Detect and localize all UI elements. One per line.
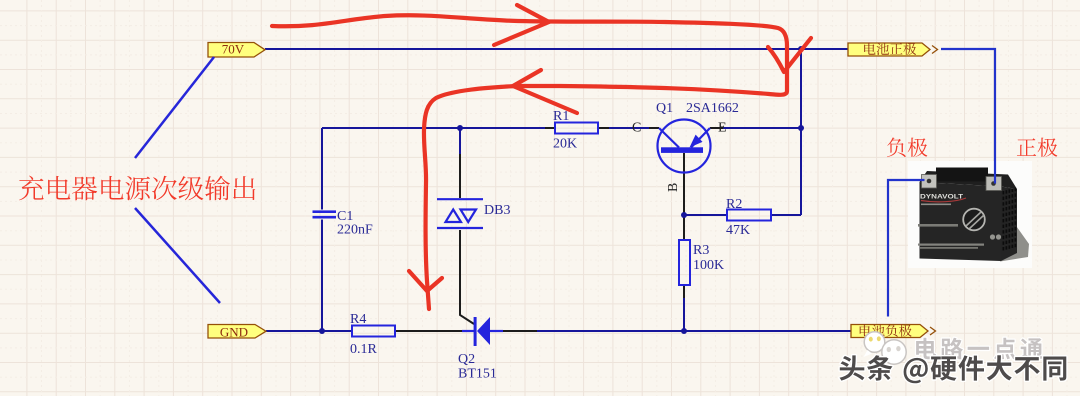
battery bottom text [918, 244, 984, 246]
svg-text:E: E [718, 121, 727, 136]
red arrowhead down (bottom) [409, 271, 442, 291]
power port GND [208, 325, 266, 339]
resistor R1 [555, 123, 598, 134]
wire: C1 branch vertical [321, 128, 323, 210]
red text 正极 [1017, 138, 1058, 157]
red text 负极 [887, 138, 927, 158]
resistor R4 [352, 326, 395, 337]
svg-text:100K: 100K [693, 258, 724, 273]
wire: Q1 base down to R2/R3 node [683, 153, 685, 240]
svg-text:C: C [632, 121, 641, 136]
svg-text:B: B [666, 183, 681, 192]
red arrow: top charge path [272, 15, 787, 309]
svg-text:2SA1662: 2SA1662 [686, 101, 739, 116]
watermark wechat icon [864, 332, 907, 370]
battery right terminal [986, 177, 1002, 191]
node: R3 / ground rail [681, 328, 687, 334]
battery top fins [936, 168, 988, 182]
svg-text:DB3: DB3 [484, 203, 510, 218]
wire: Q1 emitter to vertical [710, 127, 723, 129]
red arrowhead right (top line) [494, 5, 549, 45]
watermark 电路一点通 [916, 338, 1042, 360]
svg-text:Q2: Q2 [458, 352, 475, 367]
port 电池正极 (battery positive) [848, 43, 930, 56]
node: mid rail / DB3 [457, 125, 463, 131]
wire: battery positive tag to battery terminal [941, 49, 995, 184]
battery top lid [920, 171, 1018, 189]
svg-text:R3: R3 [693, 243, 709, 258]
port 电池负极 (battery negative) [851, 325, 928, 338]
diac DB3 [437, 199, 483, 228]
red arrowhead left (second line) [513, 70, 577, 113]
callout line from red text to GND tag [135, 208, 220, 303]
thyristor Q2 BT151 [462, 330, 474, 332]
battery left terminal [922, 175, 937, 189]
watermark 头条@硬件大不同 [840, 355, 1067, 383]
svg-text:Q1: Q1 [656, 101, 673, 116]
svg-text:BT151: BT151 [458, 367, 497, 382]
wire: R1 to Q1 collector [598, 127, 609, 129]
wire: R2 to vertical [771, 214, 801, 216]
battery photo background [908, 161, 1032, 268]
svg-text:DYNAVOLT: DYNAVOLT [920, 194, 964, 201]
wire: R3 bottom to ground rail [683, 285, 685, 298]
wire: mid rail C1 to R1 [322, 127, 545, 129]
power port 70V [208, 43, 265, 58]
wire: vertical from top rail to R2 right [800, 49, 802, 215]
node: base / R2 / R3 [681, 212, 687, 218]
wire: DB3 branch vertical [459, 128, 461, 154]
wire: 70V top rail [265, 48, 848, 50]
battery vents [1003, 188, 1017, 251]
svg-text:47K: 47K [726, 223, 750, 238]
battery front face [920, 182, 1002, 261]
svg-text:R4: R4 [350, 312, 366, 327]
svg-text:R2: R2 [726, 197, 742, 212]
node: top rail / battery positive [798, 46, 804, 52]
svg-text:R1: R1 [553, 109, 569, 124]
battery shadow [1000, 223, 1029, 262]
wire: GND bottom rail [266, 330, 352, 332]
wire: battery negative tag to battery terminal [888, 180, 925, 317]
battery model text [918, 224, 958, 227]
svg-text:GND: GND [220, 325, 248, 340]
transistor Q1 2SA1662 [658, 120, 711, 173]
red arrowhead down (at junction) [768, 38, 811, 72]
battery side face [1001, 187, 1017, 262]
wire: base node to R2 [684, 214, 727, 216]
resistor R2 [727, 210, 771, 221]
battery badge [963, 209, 985, 231]
wire: DB3 to Q2 gate [460, 230, 474, 324]
capacitor C1 [313, 210, 337, 213]
svg-text:20K: 20K [553, 137, 577, 152]
svg-text:70V: 70V [222, 42, 245, 57]
callout line from 70V tag to red text [135, 57, 214, 158]
red text 充电器电源次级输出 [19, 176, 255, 201]
svg-text:220nF: 220nF [337, 223, 373, 238]
node: emitter / vertical [798, 125, 804, 131]
resistor R3 [679, 240, 690, 285]
svg-text:0.1R: 0.1R [350, 342, 378, 357]
node: C1 / ground rail [319, 328, 325, 334]
